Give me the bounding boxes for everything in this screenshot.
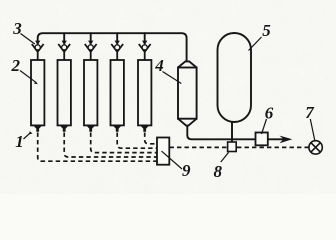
svg-text:2: 2 <box>11 56 21 75</box>
svg-text:8: 8 <box>214 162 223 181</box>
svg-text:1: 1 <box>15 132 24 151</box>
svg-text:9: 9 <box>182 161 191 180</box>
svg-text:6: 6 <box>265 104 274 123</box>
svg-text:4: 4 <box>154 56 164 75</box>
svg-text:5: 5 <box>262 21 271 40</box>
svg-text:3: 3 <box>12 19 22 38</box>
